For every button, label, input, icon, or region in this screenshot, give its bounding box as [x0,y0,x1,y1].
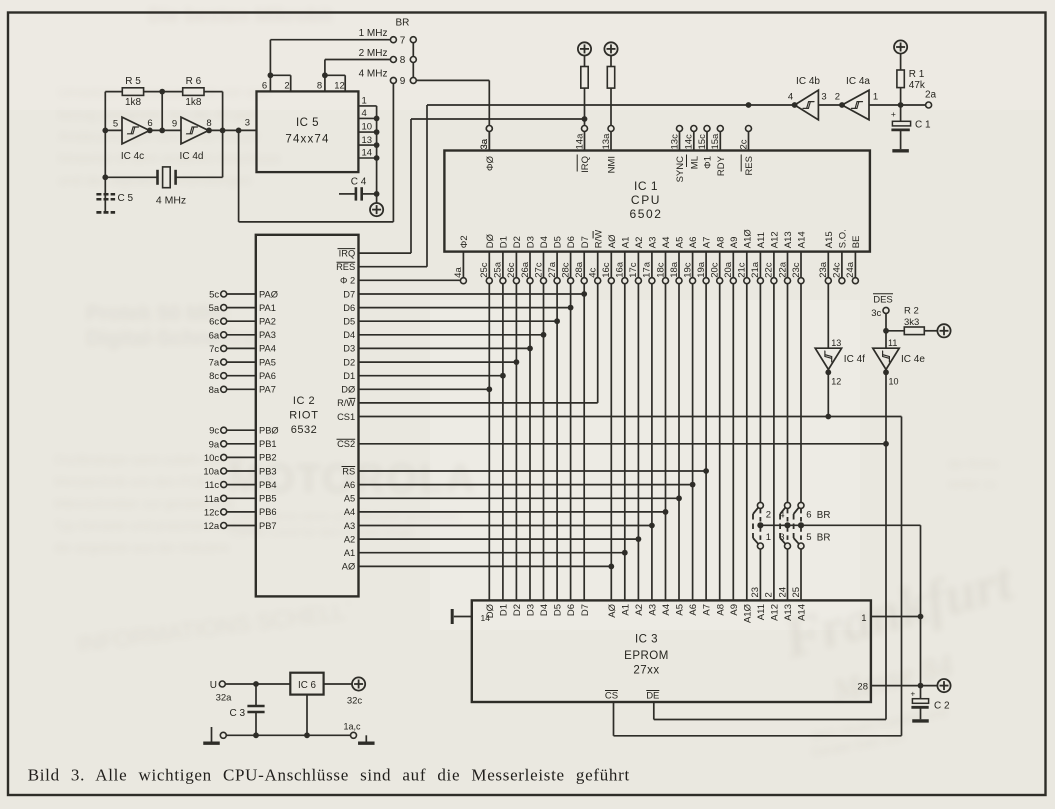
svg-text:11a: 11a [204,494,220,505]
svg-text:74xx74: 74xx74 [285,134,329,146]
svg-text:9: 9 [400,76,406,87]
svg-text:6c: 6c [209,317,219,328]
wire RIOT D7 to data bus [359,293,585,295]
wire RIOT A3 to address bus [359,525,652,527]
svg-text:Φ 2: Φ 2 [340,276,355,286]
svg-text:die Reihe: die Reihe [948,457,999,471]
svg-text:D3: D3 [526,236,537,248]
ground symbol right [365,735,367,741]
wire address bus A1 vertical [624,284,626,601]
wire IC4f output to CS1 net [827,370,829,417]
CPU top pin RDY (15a) [717,126,723,132]
svg-text:RS: RS [342,466,355,476]
svg-text:die angebote aus der Industrie: die angebote aus der Industrie [54,540,230,555]
wire RIOT CS2 to EPROM DE net [359,443,887,445]
terminal 9 pair [390,77,396,83]
svg-text:A5: A5 [344,494,355,504]
wire IC4c output to IC4d input [150,129,182,131]
svg-text:A7: A7 [702,237,713,249]
terminal 2a [926,102,932,108]
wire RIOT A2 to address bus [359,538,639,540]
svg-text:3: 3 [779,532,784,543]
svg-text:16a: 16a [615,261,626,278]
svg-text:1: 1 [861,613,866,624]
svg-text:18c: 18c [655,262,666,278]
IC U3 EPROM 27xx [472,600,871,702]
svg-text:7c: 7c [209,344,219,355]
svg-text:13: 13 [831,338,841,348]
svg-text:IC 2: IC 2 [293,395,315,407]
svg-text:PA5: PA5 [259,357,276,367]
CPU bottom pin A13 (22a) [787,252,789,278]
svg-text:3k3: 3k3 [904,317,919,328]
svg-text:15a: 15a [710,133,721,150]
wire address bus A8 vertical [719,284,721,601]
inverter IC4e [873,348,899,369]
svg-text:1: 1 [766,532,771,543]
svg-text:3: 3 [245,118,250,129]
CPU bottom pin D2 (26c) [515,252,517,278]
resistor R5 [122,88,143,96]
resistor R1 47k [900,88,902,105]
wire RIOT D2 to data bus [359,361,517,363]
svg-text:5: 5 [113,119,118,130]
svg-text:A14: A14 [797,231,808,248]
svg-text:D6: D6 [566,604,577,616]
CPU bottom pin A12 (22c) [773,252,775,278]
svg-text:BR: BR [817,532,831,543]
capacitor C5 [96,194,115,199]
svg-text:13: 13 [362,135,373,146]
svg-text:A2: A2 [344,534,355,544]
svg-text:NMI: NMI [607,156,618,173]
wire RIOT D1 to data bus [359,375,503,377]
terminal 7 pair [390,37,396,43]
svg-text:17a: 17a [642,261,653,278]
svg-text:weiter zu: weiter zu [947,477,996,491]
svg-text:A11: A11 [756,232,767,248]
CPU bottom pin D1 (25a) [502,252,504,278]
svg-text:1: 1 [873,92,878,103]
svg-text:RDY: RDY [716,155,727,176]
svg-text:D5: D5 [343,317,355,327]
svg-text:DØ: DØ [341,385,355,395]
svg-text:ΦØ: ΦØ [485,155,496,171]
wire RIOT D5 to data bus [359,320,558,322]
CPU bottom pin D6 (28c) [570,252,572,278]
wire C5 to ground [104,177,106,213]
svg-text:18a: 18a [669,261,680,278]
wire jumper to EPROM A11 [759,549,761,600]
wire IC6 ground pin [306,695,308,736]
wire data bus D3 vertical [529,284,531,601]
svg-text:C 5: C 5 [118,193,134,204]
CPU top pin SYNC (13c) [677,126,683,132]
CPU top pin &#934;&#216; (3a) [486,126,492,132]
svg-text:D5: D5 [553,604,564,616]
CPU bottom pin A5 (18a) [678,252,680,278]
wire RIOT A4 to address bus [359,511,666,513]
svg-text:13a: 13a [601,133,612,150]
svg-text:A3: A3 [648,237,659,249]
wire RIOT R/W to CPU R/W [359,402,598,404]
svg-text:D3: D3 [343,344,355,354]
power plus R1 [894,40,907,53]
svg-text:A14: A14 [797,604,808,621]
inverter IC4d [181,117,209,144]
svg-text:D4: D4 [539,236,550,248]
svg-text:7: 7 [400,35,406,46]
svg-text:8a: 8a [209,385,220,396]
svg-text:+: + [891,109,896,119]
svg-text:SYNC: SYNC [675,156,686,183]
svg-text:1 MHz: 1 MHz [359,28,388,39]
svg-text:PB7: PB7 [259,521,277,531]
wire IC4e output to DE net [885,370,887,720]
wire data bus D2 vertical [515,284,517,601]
wire R2 to plus [924,330,937,332]
wire IC4d output to IC5 pin 3 [209,129,257,131]
svg-text:D4: D4 [343,330,355,340]
svg-text:A8: A8 [715,237,726,249]
svg-text:7a: 7a [209,358,220,369]
svg-text:6a: 6a [209,330,220,341]
svg-text:3: 3 [821,92,826,103]
svg-text:12: 12 [831,377,841,387]
crystal Q1 4MHz [105,176,157,178]
svg-text:6: 6 [147,118,152,129]
svg-text:BR: BR [396,18,410,29]
wire RIOT D3 to data bus [359,347,531,349]
svg-text:CPU: CPU [631,193,661,207]
svg-text:DØ: DØ [485,233,496,248]
svg-text:26c: 26c [506,262,517,278]
svg-text:25c: 25c [479,262,490,278]
wire RIOT CS1 to EPROM CS net [359,416,902,418]
CPU top pin IRQ (14a) [582,126,588,132]
svg-text:PB6: PB6 [259,507,277,517]
ground symbol left [211,727,213,742]
wire EPROM DE to DE net [653,702,655,720]
svg-text:23: 23 [750,587,761,598]
wire CS net vertical to EPROM [901,417,903,736]
wire data bus D0 vertical [488,284,490,601]
wire address bus A0 vertical [610,284,612,601]
svg-text:15c: 15c [697,134,708,150]
svg-text:1k8: 1k8 [125,97,142,108]
CPU bottom pin A6 (19c) [692,252,694,278]
wire R5 to R6 with junction [144,91,183,93]
ground below C2 [912,719,929,722]
wire 2MHz output [324,60,326,76]
svg-text:D7: D7 [580,604,591,616]
CPU bottom pin A3 (17a) [651,252,653,278]
svg-text:PA4: PA4 [259,344,276,354]
svg-text:PB5: PB5 [259,494,277,504]
svg-text:47k: 47k [909,80,926,91]
svg-text:24a: 24a [845,261,856,278]
svg-text:Bild 3. Alle wichtigen CPU-Ans: Bild 3. Alle wichtigen CPU-Anschlüsse si… [28,766,630,785]
svg-text:14a: 14a [574,133,585,150]
svg-text:19c: 19c [682,262,693,278]
svg-text:C 3: C 3 [229,708,245,719]
svg-text:DE: DE [646,691,659,702]
svg-text:2: 2 [766,510,771,521]
wire IC6 output to plus 32c [324,683,353,685]
svg-text:2: 2 [284,81,289,92]
CPU bottom pin phi2 (4a) [462,252,464,278]
svg-text:CS: CS [605,691,618,702]
svg-text:A4: A4 [661,604,672,616]
svg-text:10: 10 [889,377,899,387]
wire address bus A5 vertical [678,284,680,601]
svg-text:A1Ø: A1Ø [742,603,753,623]
svg-text:A2: A2 [634,237,645,249]
svg-text:AØ: AØ [342,562,355,572]
wire jumper to EPROM A14 [800,549,802,600]
svg-text:D7: D7 [580,236,591,248]
svg-text:D2: D2 [343,357,355,367]
svg-text:PB3: PB3 [259,466,277,476]
CPU top pin ML (14c) [691,126,697,132]
svg-text:2: 2 [764,592,775,597]
power plus NMI pull-up [604,42,617,55]
svg-text:PB1: PB1 [259,439,277,449]
wire A11 vertical upper to jumper [759,284,761,503]
svg-text:A11: A11 [756,604,767,620]
svg-text:D1: D1 [343,371,355,381]
svg-text:D1: D1 [499,236,510,248]
svg-text:28a: 28a [574,261,585,278]
svg-text:PB4: PB4 [259,480,277,490]
svg-text:4 MHz: 4 MHz [156,195,186,207]
CPU bottom pin BE (24a) [854,252,856,278]
terminal 3a phi0 [486,126,492,132]
svg-text:CS1: CS1 [337,412,355,422]
svg-text:32c: 32c [347,696,363,707]
wire R5 left [105,91,122,93]
svg-text:24: 24 [777,587,788,598]
svg-text:IC 4b: IC 4b [796,76,820,87]
CPU bottom pin A8 (20c) [719,252,721,278]
wire data bus D1 vertical [502,284,504,601]
svg-text:PAØ: PAØ [259,289,278,299]
svg-text:IRQ: IRQ [339,248,356,258]
svg-text:27a: 27a [547,261,558,278]
svg-text:D4: D4 [539,604,550,616]
svg-text:8: 8 [206,118,211,129]
svg-text:13c: 13c [669,134,680,150]
wire A15 vertical to IC4f [827,284,829,349]
svg-text:IC 5: IC 5 [296,117,319,129]
wire R/W vertical [597,284,599,403]
svg-text:A12: A12 [770,604,781,621]
CPU bottom pin A&#216; (16c) [610,252,612,278]
wire RIOT D0 to data bus [359,388,490,390]
svg-text:5c: 5c [209,290,219,301]
IC U2 RIOT 6532 [256,235,359,597]
CPU bottom pin R/W (4c) [597,252,599,278]
svg-text:R/W: R/W [337,398,355,408]
CPU bottom pin D3 (26a) [529,252,531,278]
wire IRQ net from RIOT to CPU [359,252,412,254]
wire 4MHz from oscillator to terminal 9 [238,130,240,222]
CPU bottom pin A2 (17c) [637,252,639,278]
svg-text:11: 11 [888,338,897,348]
svg-text:17c: 17c [628,262,639,278]
svg-text:RES: RES [336,262,355,272]
CPU bottom pin S.O. (24c) [841,252,843,278]
svg-text:D5: D5 [553,236,564,248]
svg-text:IC 3: IC 3 [635,634,658,646]
svg-text:A3: A3 [344,521,355,531]
wire data bus D7 vertical [583,284,585,601]
wire RIOT A1 to address bus [359,552,625,554]
svg-text:PBØ: PBØ [259,426,279,436]
svg-text:IC 4f: IC 4f [844,354,865,365]
CPU bottom pin A4 (18c) [665,252,667,278]
svg-text:16c: 16c [601,262,612,278]
wire IC4a input to RC node [869,104,926,106]
wire feedback from R5/R6 junction down to gate line [161,92,163,131]
IC5 pins 6,2 bracket [269,75,271,91]
wire U to IC6 [225,683,290,685]
svg-text:A6: A6 [688,604,699,616]
capacitor C3 [255,684,257,706]
inverter IC4f [815,348,841,369]
wire DES to R2 node and IC4e [885,313,887,348]
svg-text:IC 4e: IC 4e [901,354,925,365]
svg-text:10: 10 [362,122,373,133]
wire phi0 from terminal 9 to CPU [416,79,489,81]
CPU bottom pin A7 (19a) [705,252,707,278]
capacitor C1 electrolytic [900,105,902,121]
CPU bottom pin D4 (27c) [543,252,545,278]
IC5 right side tied pins 1,4,10,13,14 [358,105,376,107]
svg-text:2c: 2c [738,139,749,149]
svg-text:IC 6: IC 6 [298,680,317,691]
svg-text:C 2: C 2 [934,701,950,712]
svg-text:2a: 2a [925,90,937,101]
wire address bus A3 vertical [651,284,653,601]
wire address bus A10 vertical [746,284,748,601]
svg-text:12c: 12c [204,507,220,518]
svg-text:+: + [910,689,915,698]
svg-text:RES: RES [744,156,755,176]
wire EPROM CS to CS net [613,702,615,736]
IC5 pins 8,12 bracket [324,75,326,91]
svg-text:IC 4d: IC 4d [180,151,204,162]
svg-text:A3: A3 [648,604,659,616]
svg-text:BE: BE [851,236,862,249]
wire RIOT RS to A7 [359,470,707,472]
IC U5 74xx74 divider [257,91,359,172]
svg-text:14c: 14c [684,134,695,150]
svg-text:2: 2 [835,92,840,103]
svg-text:A6: A6 [688,237,699,249]
wire RES net from RIOT to reset circuit [359,266,428,268]
svg-text:PA7: PA7 [259,385,276,395]
power plus terminal 32c [352,677,365,690]
CPU bottom pin D&#216; (25c) [488,252,490,278]
wire data bus D6 vertical [570,284,572,601]
svg-text:R 6: R 6 [186,76,202,87]
svg-text:CS2: CS2 [337,439,355,449]
svg-text:S.O.: S.O. [838,229,849,248]
svg-text:R 2: R 2 [904,306,919,317]
svg-text:2 MHz: 2 MHz [359,48,388,59]
svg-text:A1: A1 [620,237,631,249]
svg-text:C 1: C 1 [915,120,931,131]
svg-text:BR: BR [817,510,831,521]
svg-text:D1: D1 [499,604,510,616]
svg-text:R 5: R 5 [125,76,141,87]
svg-text:D3: D3 [526,604,537,616]
svg-text:AØ: AØ [607,234,618,248]
svg-text:19a: 19a [696,261,707,278]
svg-text:28c: 28c [560,262,571,278]
wire 1MHz output [269,40,271,76]
svg-text:D6: D6 [343,303,355,313]
jumper BR 4/3 [785,502,791,508]
svg-text:DØ: DØ [485,603,496,618]
wire address bus A9 vertical [732,284,734,601]
svg-text:6: 6 [806,510,811,521]
svg-text:PB2: PB2 [259,453,277,463]
power plus IRQ pull-up [578,42,591,55]
svg-text:12a: 12a [203,521,220,532]
svg-text:8: 8 [400,55,406,66]
jumper BR 2/1 [757,502,763,508]
svg-text:A1: A1 [620,604,631,616]
wire data bus D5 vertical [556,284,558,601]
wire A13 vertical upper to jumper [787,284,789,503]
svg-text:PA2: PA2 [259,317,276,327]
svg-text:PA6: PA6 [259,371,276,381]
svg-text:32a: 32a [216,693,233,704]
svg-text:hinweise in dem anderen Anschl: hinweise in dem anderen Anschluss [58,150,281,166]
CPU bottom pin A1&#216; (21c) [746,252,748,278]
svg-text:AØ: AØ [607,603,618,617]
CPU bottom pin D7 (28a) [583,252,585,278]
inverter IC4a [842,90,869,120]
svg-text:4 MHz: 4 MHz [359,69,388,80]
IC U6 voltage regulator [290,673,323,695]
wire R6 right then down to output node [204,91,223,93]
svg-text:6502: 6502 [629,207,662,221]
CPU top pin RES (2c) [746,126,752,132]
svg-text:IRQ: IRQ [580,156,591,173]
capacitor C2 electrolytic [920,686,922,699]
svg-text:A1: A1 [344,548,355,558]
CPU bottom pin A9 (20a) [732,252,734,278]
svg-text:27c: 27c [533,262,544,278]
CPU top pin NMI (13a) [608,126,614,132]
ground rail bottom [220,732,226,738]
svg-text:5: 5 [806,532,811,543]
terminal 8 pair [390,57,396,63]
CPU bottom pin A1 (16a) [624,252,626,278]
wire address bus A12 vertical [773,284,775,601]
svg-text:A2: A2 [634,604,645,616]
svg-text:8: 8 [317,81,322,92]
svg-text:26a: 26a [520,261,531,278]
svg-text:PA1: PA1 [259,303,276,313]
CPU bottom pin A14 (23c) [800,252,802,278]
wire data bus D4 vertical [543,284,545,601]
svg-text:R 1: R 1 [909,69,925,80]
IC U1 CPU 6502 [444,151,870,252]
